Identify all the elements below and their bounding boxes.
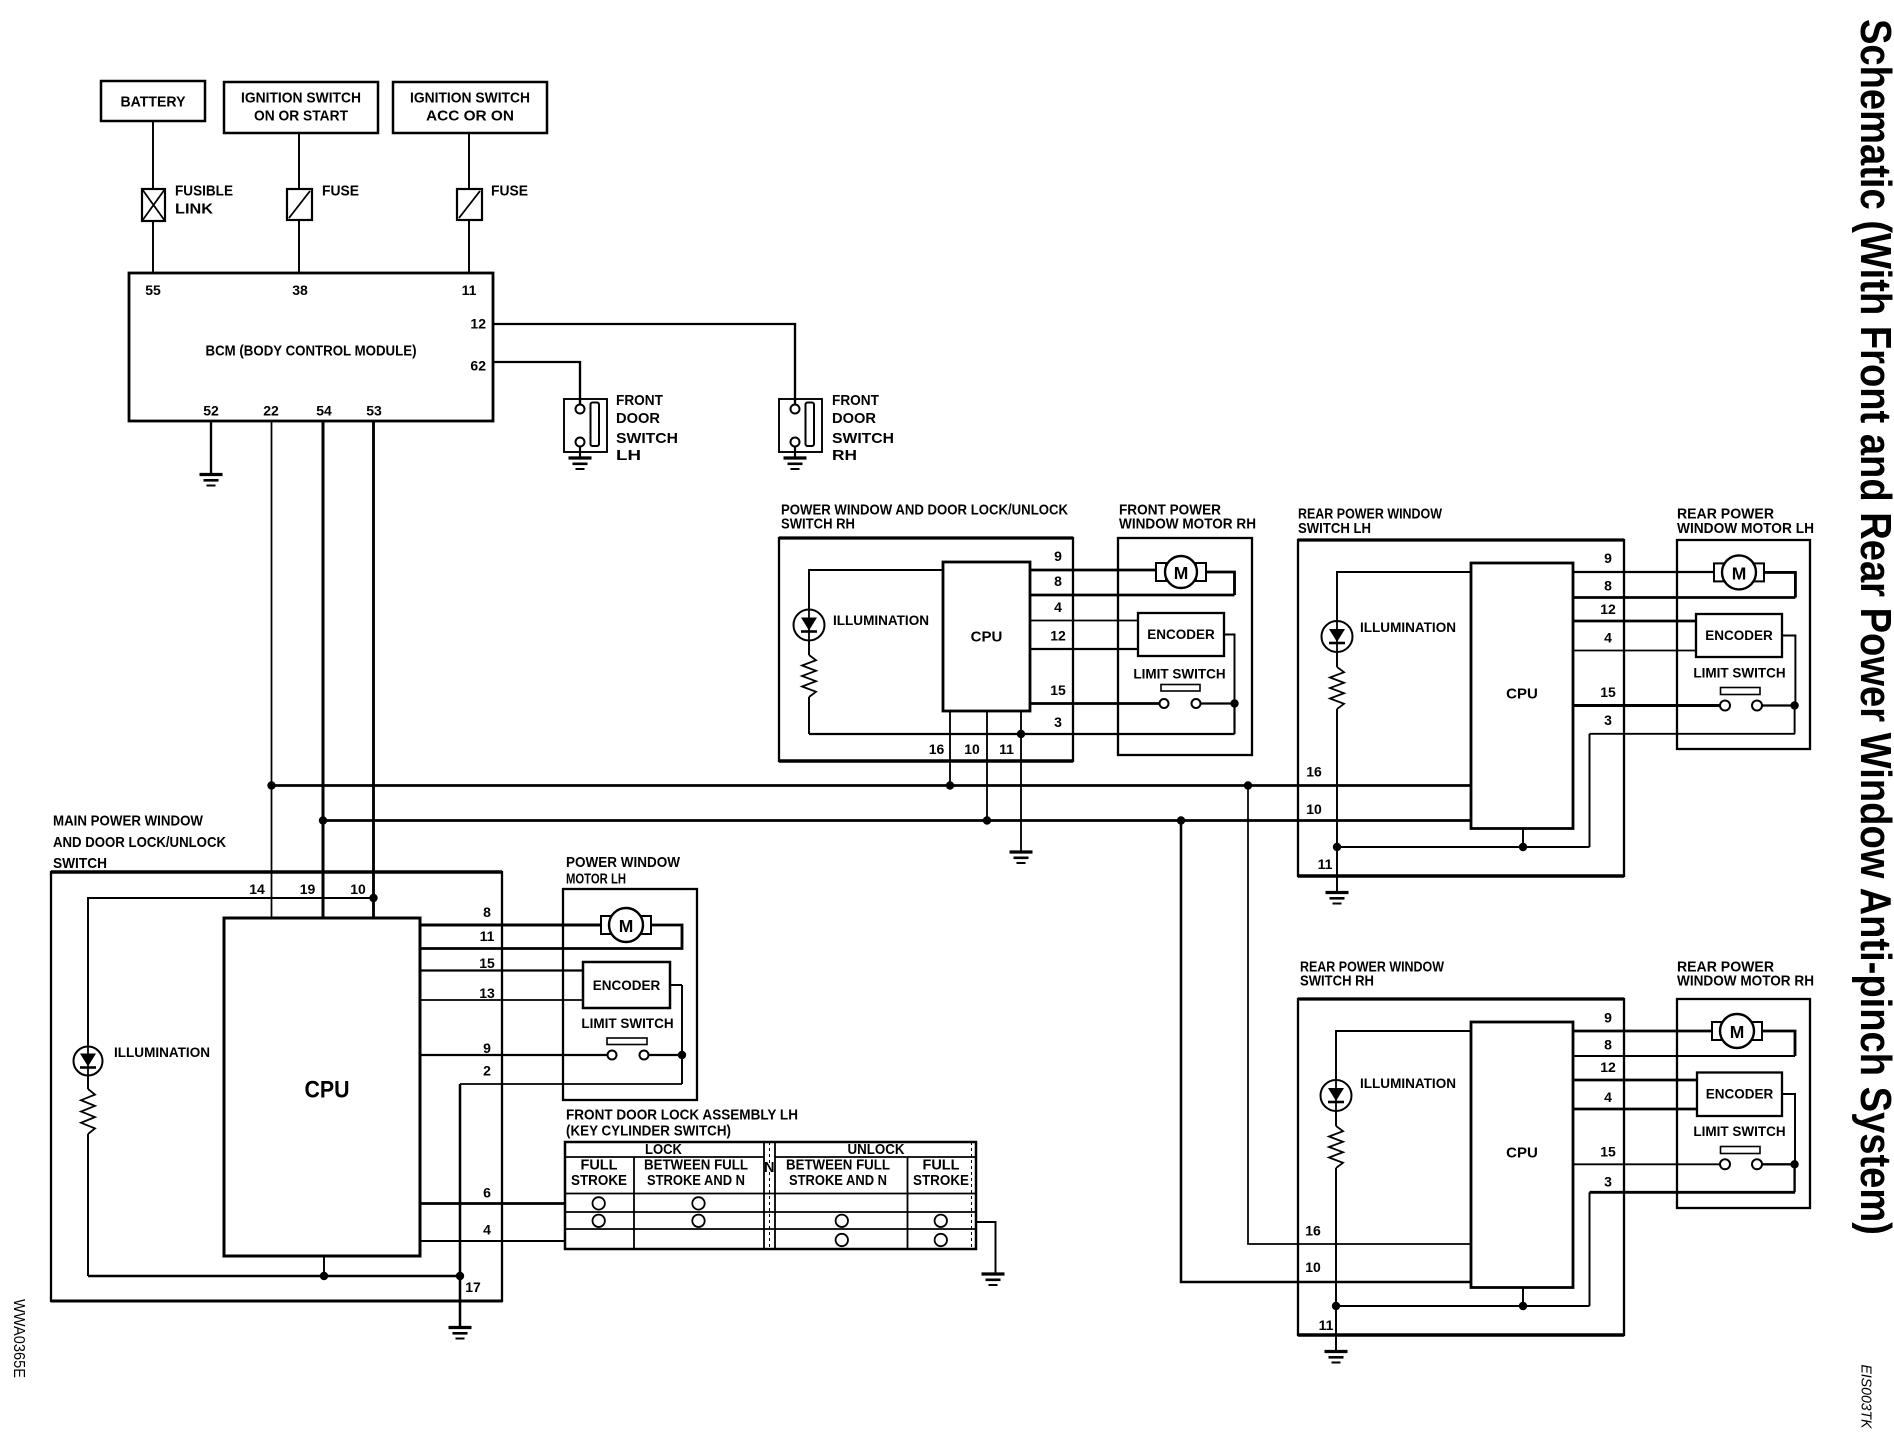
svg-text:ON OR START: ON OR START	[254, 108, 348, 125]
wire rear RH box top edge emphasis	[1298, 997, 1624, 1000]
BCM (body control module)	[129, 273, 493, 421]
encoder (front RH motor)	[1138, 613, 1224, 656]
svg-text:FUSE: FUSE	[322, 183, 359, 200]
wire motor LH return to main pin 11	[420, 925, 682, 949]
limit switch contact left (rear LH)	[1720, 701, 1730, 711]
svg-text:M: M	[619, 916, 634, 936]
junction limit switch return (LH)	[678, 1051, 686, 1059]
wire rear LH pin 12 to encoder	[1573, 620, 1696, 623]
svg-text:ILLUMINATION: ILLUMINATION	[114, 1044, 210, 1060]
limit switch contact left (rear RH)	[1720, 1159, 1730, 1169]
key cylinder switch contacts	[593, 1197, 605, 1209]
wire front RH pin 8 to motor return	[1030, 594, 1235, 597]
svg-text:FRONT: FRONT	[832, 392, 879, 409]
wire front RH pin 11 to ground	[1020, 711, 1022, 852]
wire resistor to ground (rear LH)	[1336, 709, 1338, 892]
wire limit contact to junction (rear RH)	[1762, 1163, 1795, 1165]
wire encoder right to limit junction (rear LH)	[1782, 636, 1795, 706]
svg-text:10: 10	[1305, 1259, 1321, 1275]
svg-text:ILLUMINATION: ILLUMINATION	[833, 612, 929, 628]
svg-text:3: 3	[1604, 712, 1612, 728]
svg-text:WWA0365E: WWA0365E	[10, 1299, 27, 1378]
junction pin 11 / pin 3 net (front RH)	[1017, 730, 1025, 738]
wire front RH box bottom edge emphasis	[779, 759, 1073, 762]
wire limit junction down to pin2 wire (LH)	[681, 1055, 683, 1084]
svg-text:FULL: FULL	[923, 1158, 960, 1174]
svg-text:62: 62	[470, 358, 486, 374]
fuse F1	[287, 189, 312, 220]
junction bus2 / pin54 wire	[319, 816, 327, 824]
wire BCM pin 22 to main switch pin 14	[271, 421, 273, 918]
svg-text:LIMIT SWITCH: LIMIT SWITCH	[1693, 1124, 1785, 1139]
wire key cylinder switch to ground	[976, 1222, 996, 1274]
svg-text:STROKE AND N: STROKE AND N	[789, 1173, 887, 1189]
wire ignition ACC/ON to fuse	[468, 133, 470, 189]
svg-text:SWITCH RH: SWITCH RH	[781, 516, 855, 533]
svg-text:EIS003TK: EIS003TK	[1858, 1365, 1875, 1430]
svg-text:STROKE: STROKE	[913, 1173, 969, 1189]
svg-text:SWITCH RH: SWITCH RH	[1300, 973, 1374, 990]
wire BCM pin 52 to ground	[210, 421, 212, 474]
svg-text:M: M	[1732, 563, 1747, 583]
wire encoder right to limit junction (rear RH)	[1782, 1094, 1795, 1164]
svg-text:8: 8	[1604, 1037, 1612, 1053]
svg-text:38: 38	[292, 282, 308, 298]
junction illumination / ground rail (rear LH)	[1333, 843, 1341, 851]
svg-text:Schematic (With Front and Rear: Schematic (With Front and Rear Power Win…	[1851, 19, 1894, 1235]
junction ground rail / pin17 wire	[456, 1272, 464, 1280]
motor M (rear power window motor RH)	[1712, 1014, 1762, 1048]
svg-text:LOCK: LOCK	[645, 1142, 682, 1158]
limit switch contact right (LH)	[640, 1051, 649, 1060]
svg-text:22: 22	[263, 403, 279, 419]
fuse F2	[457, 189, 482, 220]
wire rear LH pin 8 to motor return	[1573, 596, 1795, 599]
svg-text:11: 11	[1318, 856, 1333, 872]
junction bus2 / front RH switch pin 10	[983, 816, 991, 824]
svg-text:DOOR: DOOR	[832, 410, 876, 427]
svg-text:(KEY CYLINDER SWITCH): (KEY CYLINDER SWITCH)	[566, 1123, 731, 1140]
key cylinder switch table	[565, 1142, 976, 1249]
wire ground rail up to pin 3 (rear RH)	[1589, 1192, 1591, 1306]
svg-text:4: 4	[1604, 630, 1612, 646]
svg-text:12: 12	[470, 316, 486, 332]
junction limit switch return (front RH)	[1230, 699, 1238, 707]
wire BCM pin 53 to main switch pin 10	[372, 421, 375, 918]
svg-text:WINDOW MOTOR RH: WINDOW MOTOR RH	[1677, 973, 1814, 990]
svg-text:WINDOW MOTOR LH: WINDOW MOTOR LH	[1677, 520, 1814, 537]
wire resistor to ground rail	[87, 1134, 89, 1276]
wire illumination to CPU (rear RH)	[1336, 1031, 1471, 1080]
svg-text:LIMIT SWITCH: LIMIT SWITCH	[581, 1016, 673, 1031]
wire main pin 9 to limit switch LH	[420, 1054, 608, 1056]
wire rear LH pin 15 to limit switch	[1573, 704, 1721, 707]
wire rear RH pin 12 to encoder	[1573, 1079, 1697, 1082]
svg-text:ENCODER: ENCODER	[1147, 627, 1215, 642]
svg-text:12: 12	[1600, 601, 1616, 617]
svg-text:15: 15	[1600, 1144, 1616, 1160]
svg-text:9: 9	[1604, 1010, 1612, 1026]
ground at front door switch LH	[569, 458, 592, 469]
svg-text:6: 6	[483, 1185, 491, 1201]
svg-text:ILLUMINATION: ILLUMINATION	[1360, 619, 1456, 635]
wire BCM pin 54 to main switch pin 19	[322, 421, 325, 918]
svg-text:SWITCH: SWITCH	[53, 855, 107, 872]
wire limit switch contact to junction (LH)	[649, 1054, 683, 1056]
illumination LED (main switch)	[74, 1047, 103, 1076]
svg-text:ENCODER: ENCODER	[1706, 1087, 1774, 1102]
ground at rear RH switch pin 11	[1325, 1352, 1348, 1363]
motor M (rear power window motor LH)	[1714, 555, 1764, 589]
svg-text:CPU: CPU	[971, 629, 1003, 646]
resistor (rear LH illumination)	[1330, 667, 1344, 709]
wire main switch internal ground rail	[88, 1275, 460, 1278]
svg-text:9: 9	[1054, 548, 1062, 564]
svg-text:ENCODER: ENCODER	[593, 978, 661, 993]
svg-text:FULL: FULL	[581, 1158, 618, 1174]
junction bus1 / rear RH drop	[1244, 781, 1252, 789]
junction bus1 / pin22 wire	[267, 781, 275, 789]
table grid lines	[565, 1157, 976, 1229]
wire LED to resistor (rear RH)	[1335, 1111, 1337, 1126]
svg-text:MAIN POWER WINDOW: MAIN POWER WINDOW	[53, 813, 204, 830]
limit switch contact left (LH)	[608, 1051, 617, 1060]
ground at front door switch RH	[784, 458, 807, 469]
wire pin 3 to limit switch return (rear RH)	[1590, 1191, 1796, 1194]
svg-text:11: 11	[1319, 1317, 1334, 1333]
rear power window switch LH box	[1298, 540, 1624, 876]
svg-text:IGNITION SWITCH: IGNITION SWITCH	[241, 90, 361, 107]
svg-text:52: 52	[203, 403, 219, 419]
svg-text:FRONT: FRONT	[616, 392, 663, 409]
wire rear LH motor loop to pin 8	[1764, 572, 1795, 597]
svg-text:16: 16	[929, 741, 945, 757]
svg-text:SWITCH: SWITCH	[832, 430, 894, 447]
svg-text:15: 15	[479, 955, 495, 971]
wire front RH pin 9 to motor	[1030, 569, 1156, 572]
svg-text:14: 14	[249, 881, 265, 897]
wire bus1 drop to rear switch RH pin 16	[1248, 786, 1471, 1245]
junction limit switch return (rear LH)	[1790, 701, 1798, 709]
svg-text:STROKE AND N: STROKE AND N	[647, 1173, 745, 1189]
wire rear RH pin 4 to encoder	[1573, 1108, 1697, 1111]
wire rear RH pin 15 to limit switch	[1573, 1163, 1721, 1165]
svg-text:53: 53	[366, 403, 382, 419]
motor M (front power window motor RH)	[1156, 556, 1206, 588]
ignition switch ACC/ON supply box	[393, 82, 547, 133]
wire front RH pin 12 to encoder	[1030, 648, 1138, 650]
wire encoder LH right stub	[670, 984, 682, 986]
front door switch LH	[564, 399, 607, 452]
wire front RH box top edge emphasis	[779, 536, 1073, 539]
wire BCM pin 12 to front door switch RH	[493, 324, 795, 404]
front power window motor RH box	[1118, 538, 1252, 755]
limit switch bar (LH)	[607, 1038, 647, 1045]
svg-text:ENCODER: ENCODER	[1705, 628, 1773, 643]
wire pin 3 ground return (front RH)	[809, 733, 1235, 735]
wire limit junction down to pin3 (front RH)	[1233, 704, 1235, 735]
rear power window switch RH box	[1298, 999, 1624, 1335]
wire rear LH pin 4 to encoder	[1573, 650, 1696, 652]
ground at front RH switch pin 11	[1010, 852, 1033, 863]
svg-text:10: 10	[1306, 801, 1322, 817]
wire ground rail (rear RH)	[1336, 1305, 1590, 1307]
svg-text:M: M	[1730, 1022, 1745, 1042]
svg-text:LIMIT SWITCH: LIMIT SWITCH	[1133, 667, 1225, 682]
wire limit switch LH return to main pin 2 net	[460, 1083, 682, 1085]
svg-text:BATTERY: BATTERY	[121, 94, 186, 111]
ground at BCM pin 52	[200, 475, 223, 486]
svg-text:N: N	[764, 1160, 774, 1176]
battery supply box	[101, 81, 205, 121]
wire fuse F1 to BCM pin 38	[298, 220, 300, 273]
CPU of main switch	[224, 918, 420, 1256]
svg-text:BETWEEN FULL: BETWEEN FULL	[786, 1158, 890, 1174]
wire ground rail (rear LH)	[1337, 846, 1590, 848]
wire ground rail up to pin 3 (rear LH)	[1589, 734, 1591, 847]
svg-text:POWER WINDOW: POWER WINDOW	[566, 854, 681, 871]
wire battery to fusible link	[152, 121, 154, 189]
wire rear RH box bottom edge emphasis	[1298, 1333, 1624, 1336]
wire front RH pin 4 to encoder	[1030, 620, 1138, 622]
wire main pin 8 to motor LH	[420, 924, 600, 927]
junction bus1 / front RH switch pin 16	[946, 781, 954, 789]
wire main switch box top edge emphasis	[51, 870, 502, 874]
encoder (rear LH motor)	[1696, 614, 1782, 657]
svg-text:16: 16	[1305, 1223, 1321, 1239]
encoder (rear RH motor)	[1697, 1073, 1782, 1117]
svg-text:AND DOOR LOCK/UNLOCK: AND DOOR LOCK/UNLOCK	[53, 834, 226, 851]
svg-text:UNLOCK: UNLOCK	[848, 1142, 905, 1158]
svg-text:DOOR: DOOR	[616, 410, 660, 427]
limit switch contact right (front RH)	[1192, 699, 1201, 708]
svg-text:4: 4	[1604, 1089, 1612, 1105]
limit switch bar (front RH)	[1161, 685, 1200, 692]
limit switch contact right (rear LH)	[1752, 701, 1762, 711]
limit switch bar (rear LH)	[1721, 688, 1761, 695]
wire limit contact to junction (front RH)	[1201, 702, 1235, 704]
wire bus2 drop to rear switch RH pin 10	[1181, 821, 1471, 1283]
wire ignition ON/START to fuse	[298, 133, 300, 189]
svg-text:2: 2	[483, 1063, 491, 1079]
svg-text:55: 55	[145, 282, 161, 298]
junction bus2 / rear RH drop	[1177, 816, 1185, 824]
wire rear RH pin 9 to motor	[1573, 1030, 1712, 1033]
resistor (front RH illumination)	[802, 655, 816, 697]
junction CPU ground stem (rear LH)	[1519, 843, 1527, 851]
wire limit junction down to pin3 (rear RH)	[1793, 1164, 1795, 1192]
svg-text:FRONT DOOR LOCK ASSEMBLY LH: FRONT DOOR LOCK ASSEMBLY LH	[566, 1107, 798, 1124]
svg-text:M: M	[1174, 563, 1189, 583]
resistor (main illumination)	[81, 1089, 95, 1134]
svg-text:LIMIT SWITCH: LIMIT SWITCH	[1693, 665, 1785, 680]
wire rear LH pin 9 to motor	[1573, 571, 1714, 573]
wire illumination to pin10 node	[88, 898, 374, 1046]
junction CPU ground stem	[320, 1272, 328, 1280]
front door switch RH	[779, 399, 822, 452]
limit switch contact right (rear RH)	[1752, 1159, 1762, 1169]
wire CPU bottom to ground rail (rear LH)	[1522, 829, 1524, 848]
wire front RH pin 15 to limit switch	[1030, 702, 1160, 705]
svg-text:CPU: CPU	[1506, 686, 1538, 703]
svg-text:11: 11	[480, 928, 495, 944]
svg-text:8: 8	[483, 904, 491, 920]
svg-text:LINK: LINK	[175, 201, 213, 218]
svg-text:13: 13	[479, 985, 495, 1001]
main power window and door lock/unlock switch box	[51, 872, 502, 1301]
wire limit junction down to pin3 (rear LH)	[1794, 706, 1796, 734]
illumination LED (rear RH)	[1321, 1080, 1352, 1111]
wire LED to resistor	[87, 1076, 89, 1090]
svg-text:12: 12	[1050, 628, 1066, 644]
bus wire 2 (pin 54 net) to rear switch LH pin 10	[323, 819, 1471, 822]
wire LED to resistor (rear LH)	[1336, 652, 1338, 667]
svg-text:8: 8	[1604, 578, 1612, 594]
svg-text:FUSE: FUSE	[491, 183, 528, 200]
svg-text:9: 9	[483, 1040, 491, 1056]
svg-text:19: 19	[300, 881, 316, 897]
rear power window motor LH box	[1677, 540, 1810, 749]
wire illumination to CPU (rear LH)	[1337, 572, 1471, 621]
illumination LED (front RH)	[794, 610, 825, 641]
svg-text:3: 3	[1604, 1174, 1612, 1190]
svg-text:BCM (BODY CONTROL MODULE): BCM (BODY CONTROL MODULE)	[206, 343, 417, 360]
svg-text:BETWEEN FULL: BETWEEN FULL	[644, 1158, 748, 1174]
limit switch bar (rear RH)	[1721, 1147, 1761, 1154]
rear power window motor RH box	[1677, 999, 1810, 1208]
wire encoder LH to limit switch junction	[681, 985, 683, 1055]
wire motor RH loop to pin 8	[1206, 572, 1235, 595]
wire LED to resistor (front RH)	[808, 641, 810, 656]
bus wire 1 (pin 22 net) to rear switch LH pin 16	[272, 784, 1472, 787]
wire main pin 6 to key cylinder switch	[420, 1202, 565, 1205]
svg-text:4: 4	[1054, 599, 1062, 615]
wire resistor down (front RH)	[808, 697, 810, 734]
wire CPU bottom to ground rail	[323, 1256, 325, 1276]
svg-text:54: 54	[316, 403, 332, 419]
svg-text:WINDOW MOTOR RH: WINDOW MOTOR RH	[1119, 516, 1256, 533]
wire front RH pin 10 to bus2	[986, 711, 988, 821]
CPU of rear RH switch	[1471, 1022, 1573, 1288]
svg-text:10: 10	[350, 881, 366, 897]
wire fusible link to BCM pin 55	[152, 221, 154, 273]
motor M (power window motor LH)	[601, 908, 651, 942]
svg-text:9: 9	[1604, 550, 1612, 566]
ground at key cylinder switch	[982, 1274, 1005, 1285]
svg-text:12: 12	[1600, 1059, 1616, 1075]
svg-text:FUSIBLE: FUSIBLE	[175, 183, 233, 200]
limit switch contact left (front RH)	[1160, 699, 1169, 708]
ground at rear LH switch pin 11	[1326, 893, 1349, 904]
svg-text:CPU: CPU	[1506, 1145, 1538, 1162]
wire main pin 15 to encoder LH	[420, 969, 583, 971]
power window motor LH box	[563, 889, 697, 1100]
wire encoder right to limit junction (front RH)	[1224, 635, 1235, 704]
illumination LED (rear LH)	[1322, 621, 1353, 652]
svg-text:17: 17	[465, 1279, 481, 1295]
wire resistor to ground (rear RH)	[1335, 1168, 1337, 1351]
wire main pin 13 to encoder LH	[420, 999, 583, 1001]
junction illumination / ground rail (rear RH)	[1332, 1302, 1340, 1310]
wire pin 3 to limit switch return (rear LH)	[1590, 733, 1796, 735]
svg-text:CPU: CPU	[305, 1077, 350, 1104]
wire front RH pin 16 to bus1	[949, 711, 951, 786]
svg-text:SWITCH: SWITCH	[616, 430, 678, 447]
svg-text:3: 3	[1054, 714, 1062, 730]
svg-text:IGNITION SWITCH: IGNITION SWITCH	[410, 90, 530, 107]
svg-text:SWITCH LH: SWITCH LH	[1298, 520, 1371, 537]
wire main switch box bottom edge emphasis	[51, 1300, 502, 1303]
ground at main switch pin 17	[449, 1328, 472, 1339]
svg-text:11: 11	[462, 282, 477, 298]
wire BCM pin 62 to front door switch LH	[493, 362, 580, 404]
wire fuse F2 to BCM pin 11	[468, 220, 470, 273]
power window and door lock/unlock switch RH box	[779, 538, 1073, 761]
svg-text:11: 11	[999, 741, 1014, 757]
svg-text:MOTOR LH: MOTOR LH	[566, 871, 626, 888]
CPU of front RH switch	[943, 562, 1030, 711]
fusible link	[142, 189, 165, 221]
wire rear LH box top edge emphasis	[1298, 538, 1624, 541]
ignition switch ON/START supply box	[224, 82, 378, 133]
junction CPU ground stem (rear RH)	[1519, 1302, 1527, 1310]
svg-text:ACC OR ON: ACC OR ON	[426, 108, 514, 125]
svg-text:RH: RH	[832, 447, 857, 464]
svg-text:8: 8	[1054, 573, 1062, 589]
wire limit contact to junction (rear LH)	[1762, 704, 1795, 706]
svg-text:LH: LH	[616, 447, 641, 464]
wire rear LH box bottom edge emphasis	[1298, 874, 1624, 877]
svg-text:STROKE: STROKE	[571, 1173, 627, 1189]
wire CPU bottom to ground rail (rear RH)	[1522, 1288, 1524, 1307]
encoder (motor LH)	[583, 962, 670, 1008]
resistor (rear RH illumination)	[1329, 1126, 1343, 1168]
svg-text:ILLUMINATION: ILLUMINATION	[1360, 1075, 1456, 1091]
svg-text:16: 16	[1306, 764, 1322, 780]
wire illumination to CPU (front RH)	[809, 570, 943, 610]
CPU of rear LH switch	[1471, 563, 1573, 829]
svg-text:10: 10	[964, 741, 980, 757]
svg-text:4: 4	[483, 1222, 491, 1238]
svg-text:15: 15	[1600, 684, 1616, 700]
junction limit switch return (rear RH)	[1790, 1160, 1798, 1168]
wire rear RH pin 8 to motor return	[1573, 1055, 1795, 1057]
svg-text:15: 15	[1050, 682, 1066, 698]
junction illumination / pin 10 wire	[369, 894, 377, 902]
wire rear RH motor loop to pin 8	[1762, 1031, 1795, 1056]
wire main pin 4 to key cylinder switch	[420, 1240, 565, 1242]
wire pin 2 net down to pin 17 ground	[459, 1084, 462, 1327]
